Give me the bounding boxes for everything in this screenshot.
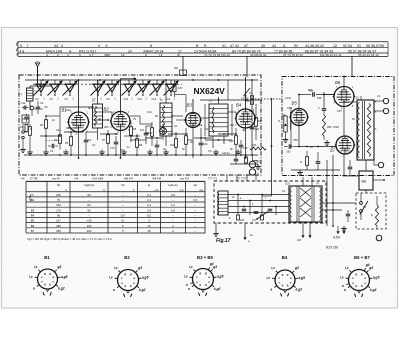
svg-text:44: 44 — [272, 44, 276, 48]
svg-text:2,9: 2,9 — [147, 208, 151, 212]
svg-text:44t: 44t — [21, 178, 25, 181]
wire trafo feed — [311, 177, 313, 186]
wire B2 top — [120, 80, 122, 112]
svg-text:B6: B6 — [335, 80, 341, 85]
svg-text:100: 100 — [87, 224, 92, 228]
svg-text:V: V — [103, 188, 105, 192]
svg-text:R: R — [204, 44, 207, 48]
wire L1 down — [29, 101, 31, 110]
svg-text:g3: g3 — [137, 266, 142, 270]
svg-text:52 54: 52 54 — [343, 44, 352, 48]
resistor R16 zigzag — [250, 147, 266, 150]
svg-text:Ig2(+k): Ig2(+k) — [168, 183, 177, 187]
svg-text:C3: C3 — [40, 101, 44, 105]
wire bus drops — [40, 80, 42, 84]
svg-text:C10: C10 — [110, 147, 115, 150]
svg-text:B8: B8 — [362, 180, 367, 184]
svg-text:mA: mA — [180, 188, 184, 192]
ground B2k — [101, 150, 103, 153]
svg-text:C13: C13 — [152, 98, 157, 101]
svg-text:R11: R11 — [145, 132, 150, 135]
svg-text:mA: mA — [155, 188, 159, 192]
input jack — [22, 124, 24, 130]
svg-text:486 447: 486 447 — [124, 178, 134, 181]
wire link b — [204, 104, 206, 136]
cap C27 — [234, 158, 239, 160]
svg-text:B5: B5 — [31, 219, 35, 223]
svg-text:o: o — [196, 280, 198, 284]
svg-text:C55: C55 — [287, 106, 292, 110]
jack G — [30, 106, 34, 110]
tube B3 — [186, 113, 201, 128]
wire if link4 — [201, 117, 210, 119]
svg-text:V: V — [133, 188, 135, 192]
svg-text:47 42: 47 42 — [230, 44, 239, 48]
tube B4 — [236, 109, 255, 128]
svg-text:59: 59 — [380, 44, 384, 48]
svg-text:4: 4 — [61, 44, 63, 48]
svg-text:45: 45 — [261, 44, 265, 48]
svg-text:i,c: i,c — [340, 276, 344, 280]
svg-text:220: 220 — [240, 219, 245, 222]
svg-text:220: 220 — [297, 239, 302, 242]
svg-text:−: − — [194, 224, 196, 228]
svg-text:6,5: 6,5 — [147, 213, 151, 217]
svg-text:777 7777: 777 7777 — [236, 178, 247, 181]
svg-text:g: g — [282, 273, 284, 277]
svg-text:i,c: i,c — [184, 275, 188, 279]
svg-text:R19 318: R19 318 — [326, 246, 338, 250]
voltage table — [25, 181, 27, 233]
variable capacitor C13 — [151, 83, 164, 85]
variable capacitor C3 — [49, 83, 62, 85]
svg-text:C24: C24 — [249, 109, 254, 113]
switch S2 — [244, 88, 251, 96]
svg-text:1,2: 1,2 — [171, 203, 175, 207]
ground bus2 — [257, 164, 259, 167]
wire B1 bottom — [78, 132, 80, 158]
capacitor C18 — [239, 144, 244, 146]
wire mid vertical — [323, 92, 325, 108]
svg-text:a: a — [33, 287, 35, 291]
svg-text:51: 51 — [357, 44, 361, 48]
trimmer C1a — [23, 106, 25, 110]
capacitor C5 — [51, 144, 53, 149]
svg-text:150: 150 — [56, 193, 61, 197]
variable capacitor C14 — [165, 83, 178, 85]
wire B7 input — [299, 146, 336, 148]
variable capacitor C11 — [137, 83, 150, 85]
svg-text:−: − — [172, 213, 174, 217]
svg-text:47)4 1986: 47)4 1986 — [92, 178, 104, 181]
svg-text:×: × — [375, 100, 377, 104]
svg-text:100: 100 — [56, 203, 61, 207]
ground R50 — [326, 140, 328, 143]
wire B5 plate — [298, 95, 300, 109]
svg-text:B2: B2 — [124, 255, 130, 260]
wire fig17 drop — [244, 223, 246, 239]
capacitor C10 — [114, 141, 119, 143]
wire feed left — [182, 56, 184, 75]
svg-text:15: 15 — [147, 224, 151, 228]
wire feed right — [351, 56, 353, 76]
paper texture — [0, 0, 1, 1]
wire top bus — [25, 79, 258, 81]
parts value strip — [18, 41, 388, 43]
svg-text:B4: B4 — [236, 103, 242, 108]
svg-text:S: S — [32, 193, 34, 197]
svg-text:i,c: i,c — [266, 276, 270, 280]
resistor R2 top — [173, 84, 176, 92]
tuning arrow — [120, 78, 136, 80]
svg-text:56 58,57: 56 58,57 — [366, 44, 380, 48]
resistor R12 — [174, 139, 177, 148]
power transformer — [289, 186, 322, 222]
Fig17 mains dashed box — [214, 181, 326, 223]
antenna — [37, 67, 39, 86]
resistor R11 — [150, 128, 153, 137]
svg-text:C1a: C1a — [21, 102, 26, 105]
svg-text:B2: B2 — [104, 107, 110, 112]
svg-text:7: 7 — [27, 44, 29, 48]
wire mesh — [40, 135, 60, 137]
svg-text:k,g2: k,g2 — [295, 288, 302, 292]
variable capacitor C4 — [64, 83, 77, 85]
wire osc row — [175, 94, 187, 96]
svg-text:Igt: Igt — [194, 183, 197, 187]
svg-text:g: g — [49, 272, 51, 276]
capacitor C1 — [36, 106, 41, 108]
svg-text:Fig.17: Fig.17 — [216, 238, 231, 244]
svg-text:g4: g4 — [209, 262, 214, 266]
wire to mains box — [236, 175, 238, 181]
svg-text:a: a — [270, 288, 272, 292]
wire B3 top — [192, 99, 194, 113]
wire 45v — [337, 226, 339, 233]
svg-text:i,c: i,c — [34, 265, 38, 269]
svg-text:M2: M2 — [308, 88, 312, 92]
svg-text:k,g2: k,g2 — [370, 288, 377, 292]
resistor R7 — [106, 135, 109, 144]
svg-text:g: g — [355, 272, 357, 276]
svg-text:0,25: 0,25 — [285, 183, 290, 186]
svg-text:B7: B7 — [31, 229, 35, 233]
svg-text:B6: B6 — [31, 224, 35, 228]
variable capacitor C8 — [106, 83, 119, 85]
wire B5 grid — [290, 120, 293, 122]
svg-text:B3 + B5: B3 + B5 — [197, 255, 213, 260]
wire b6 col — [333, 95, 335, 100]
svg-text:0,1: 0,1 — [174, 124, 178, 128]
svg-text:o: o — [364, 281, 366, 285]
svg-text:2: 2 — [57, 53, 59, 57]
svg-text:~: ~ — [377, 237, 379, 241]
wire B4 top — [245, 77, 247, 109]
svg-text:C16: C16 — [203, 143, 208, 146]
tube B2 — [111, 112, 130, 131]
svg-text:g: g — [287, 273, 289, 277]
svg-text:95: 95 — [87, 193, 91, 197]
resistor R5 — [69, 137, 72, 146]
variable capacitor C10 — [123, 83, 136, 85]
svg-text:R41 G R17: R41 G R17 — [79, 49, 97, 53]
svg-text:C60: C60 — [286, 151, 291, 154]
svg-text:90: 90 — [87, 208, 91, 212]
ground mains — [343, 226, 345, 229]
wire g2 bus — [60, 106, 93, 108]
svg-text:R: R — [371, 214, 373, 217]
resistor R8 — [129, 127, 132, 136]
wire trafo top — [344, 101, 357, 103]
svg-text:0,9: 0,9 — [171, 193, 175, 197]
svg-text:C57: C57 — [337, 109, 342, 113]
svg-text:LS: LS — [377, 94, 380, 98]
AF section dashed box — [282, 77, 394, 176]
svg-text:62: 62 — [87, 203, 91, 207]
wire mains link2 — [322, 209, 342, 211]
wave arrow — [39, 85, 51, 87]
wire B2 bottom — [120, 131, 122, 159]
res R19 — [245, 157, 248, 163]
svg-text:−: − — [122, 193, 124, 197]
mains switch dashed box — [356, 193, 386, 229]
capacitor C61 — [316, 161, 321, 163]
svg-text:C23: C23 — [205, 127, 210, 131]
svg-text:M2 48,44 41 44: M2 48,44 41 44 — [320, 53, 342, 57]
svg-text:R16: R16 — [252, 144, 257, 147]
electrolytic C20 — [249, 161, 255, 167]
speaker terminal 1 — [383, 98, 388, 103]
svg-text:54 44,14 54 12: 54 44,14 54 12 — [358, 53, 379, 57]
svg-text:R18: R18 — [245, 100, 250, 103]
svg-text:−: − — [172, 198, 174, 202]
resistor R1b — [25, 125, 28, 132]
tube B5 — [291, 109, 308, 126]
resistor R17 — [254, 118, 257, 127]
svg-text:96: 96 — [57, 213, 61, 217]
wire b5 col — [290, 107, 292, 147]
capacitor C60 — [288, 144, 290, 149]
svg-text:−: − — [88, 198, 90, 202]
wire b8 left — [345, 175, 359, 177]
svg-text:0,1M: 0,1M — [285, 96, 291, 100]
svg-text:47 74,78 M 44: 47 74,78 M 44 — [283, 53, 303, 57]
svg-text:44,46,45,42: 44,46,45,42 — [305, 44, 324, 48]
svg-text:M414,14R: M414,14R — [46, 49, 63, 53]
svg-text:o: o — [342, 284, 344, 288]
svg-text:o: o — [279, 281, 281, 285]
wire feed mid — [246, 56, 248, 77]
ground af — [299, 170, 301, 173]
AF transformer — [218, 191, 228, 215]
svg-text:−: − — [194, 208, 196, 212]
svg-text:4,5V: 4,5V — [333, 236, 341, 240]
wire ps vertical 3 — [343, 154, 345, 177]
svg-text:i,c: i,c — [189, 265, 193, 269]
svg-text:mA: mA — [199, 188, 203, 192]
coil L1 — [27, 88, 34, 101]
wire B6 grid — [333, 95, 335, 100]
resistor R13 — [184, 136, 187, 145]
svg-text:786 444: 786 444 — [152, 178, 162, 181]
capacitor C16 — [199, 142, 204, 144]
svg-text:12: 12 — [333, 44, 337, 48]
svg-text:×: × — [375, 127, 377, 131]
svg-text:−: − — [122, 198, 124, 202]
svg-text:−: − — [194, 193, 196, 197]
svg-text:g: g — [124, 272, 126, 276]
mains wiring — [228, 194, 289, 196]
wire link a — [96, 119, 108, 121]
IF transformer T2 — [160, 103, 172, 136]
svg-text:Vg1 = 2M; R1 Rg2 = 100 Vy De: Vg1 = 2M; R1 Rg2 = 100 Vy Detect = 48 mA… — [27, 237, 112, 241]
IF transformer T1 — [93, 104, 103, 128]
resistor R18 — [250, 96, 253, 105]
svg-text:47: 47 — [244, 44, 248, 48]
svg-text:−: − — [194, 219, 196, 223]
svg-text:24: 24 — [128, 49, 132, 53]
svg-text:g: g — [130, 272, 132, 276]
capacitor C64 — [346, 213, 351, 215]
svg-text:×: × — [375, 110, 377, 114]
svg-text:a,g5: a,g5 — [298, 276, 305, 280]
svg-text:B4: B4 — [282, 255, 288, 260]
svg-text:R15: R15 — [229, 140, 234, 143]
svg-text:C8: C8 — [112, 122, 116, 126]
resistor R1 — [28, 127, 31, 136]
svg-text:g3: g3 — [56, 265, 61, 269]
svg-text:47 786: 47 786 — [30, 178, 38, 181]
svg-text:8: 8 — [145, 53, 147, 57]
capacitor C12 — [144, 132, 149, 134]
svg-text:6r: 6r — [121, 219, 124, 223]
svg-text:Vg2(+k): Vg2(+k) — [84, 183, 94, 187]
svg-text:o: o — [208, 280, 210, 284]
switch blade — [257, 212, 268, 220]
svg-text:NX624V: NX624V — [194, 86, 226, 96]
svg-text:C5a: C5a — [66, 108, 71, 112]
wire agc — [46, 140, 60, 142]
svg-text:k,g2: k,g2 — [139, 288, 146, 292]
svg-text:127: 127 — [252, 219, 257, 222]
resistor R55 — [375, 205, 378, 226]
svg-text:C56: C56 — [293, 138, 298, 142]
wire bottom bus 2 — [230, 163, 258, 165]
svg-text:k,g2: k,g2 — [58, 287, 65, 291]
svg-text:Va: Va — [57, 183, 61, 187]
svg-text:o: o — [121, 281, 123, 285]
speaker terminal 2 — [383, 108, 388, 113]
svg-text:a: a — [113, 288, 115, 292]
svg-text:41: 41 — [222, 44, 226, 48]
svg-text:5: 5 — [20, 44, 22, 48]
wire if link2 — [130, 115, 140, 117]
transformer taps — [302, 222, 304, 237]
ground B3k — [149, 150, 151, 153]
svg-text:0,6: 0,6 — [121, 213, 125, 217]
svg-text:75: 75 — [57, 198, 61, 202]
gang link dashed line — [33, 83, 182, 85]
svg-text:a,g5: a,g5 — [61, 275, 68, 279]
capacitor C1b — [24, 116, 29, 118]
mains terminal — [376, 235, 382, 241]
svg-text:C4a: C4a — [56, 128, 61, 132]
svg-text:44 M2,M 44: 44 M2,M 44 — [250, 53, 267, 57]
capacitor C59 — [322, 108, 327, 110]
svg-text:o: o — [133, 281, 135, 285]
capacitor C14 — [155, 144, 160, 146]
junction dots b2 — [298, 94, 300, 96]
svg-text:170: 170 — [56, 208, 61, 212]
svg-text:C19 4u: C19 4u — [222, 152, 230, 155]
switch S6 — [360, 202, 363, 205]
svg-text:mm 407: mm 407 — [180, 178, 190, 181]
capacitor C58 — [312, 92, 314, 97]
svg-text:R17: R17 — [258, 120, 263, 123]
svg-text:a,g5: a,g5 — [142, 276, 149, 280]
speaker terminal 3 — [378, 162, 383, 167]
svg-text:+44: +44 — [74, 178, 79, 181]
svg-text:a: a — [344, 288, 346, 292]
wire inter-box vertical — [271, 99, 273, 196]
wire B4 bottom — [245, 128, 247, 158]
svg-text:R12: R12 — [170, 144, 175, 147]
svg-text:−: − — [194, 213, 196, 217]
capacitor C6 — [84, 139, 89, 141]
wire if link1 — [103, 111, 113, 113]
svg-text:1,6: 1,6 — [147, 203, 151, 207]
svg-text:4k7: 4k7 — [88, 106, 93, 110]
svg-text:4 T: 4 T — [89, 53, 94, 57]
svg-text:0,5: 0,5 — [193, 198, 197, 202]
svg-text:4: 4 — [46, 53, 48, 57]
svg-text:C10: C10 — [124, 98, 129, 101]
svg-text:B3: B3 — [31, 208, 35, 212]
svg-text:44: 44 — [54, 44, 58, 48]
svg-text:B6 + B7: B6 + B7 — [354, 255, 370, 260]
bus junction dots — [29, 154, 31, 156]
svg-text:545: 545 — [317, 96, 322, 100]
wire bottom bus — [24, 154, 258, 156]
svg-text:0,1: 0,1 — [282, 190, 286, 193]
svg-text:a,g5: a,g5 — [217, 275, 224, 279]
svg-text:74 72,74 94 M4 44: 74 72,74 94 M4 44 — [204, 53, 230, 57]
svg-text:185: 185 — [56, 224, 61, 228]
wire antenna to coil — [30, 85, 38, 87]
svg-text:Ia: Ia — [148, 183, 151, 187]
svg-text:5: 5 — [106, 44, 108, 48]
wire if link3 — [172, 115, 183, 117]
svg-text:0,5: 0,5 — [208, 149, 212, 153]
ground ant — [29, 150, 31, 153]
svg-text:777 771: 777 771 — [208, 178, 218, 181]
svg-text:50k: 50k — [198, 123, 203, 127]
svg-text:S61: S61 — [174, 67, 179, 70]
svg-text:−: − — [194, 229, 196, 233]
svg-text:W: W — [177, 53, 180, 57]
svg-text:mm 44: mm 44 — [52, 178, 60, 181]
svg-text:g: g — [44, 272, 46, 276]
svg-text:g: g — [199, 271, 201, 275]
variable capacitor C7 — [92, 83, 105, 85]
svg-text:−: − — [172, 219, 174, 223]
RF-IF section dashed box — [19, 75, 261, 175]
svg-text:o: o — [186, 283, 188, 287]
output transformer S1 — [357, 100, 374, 160]
svg-text:B2: B2 — [31, 198, 35, 202]
svg-text:−: − — [88, 213, 90, 217]
svg-text:S: S — [229, 216, 231, 220]
